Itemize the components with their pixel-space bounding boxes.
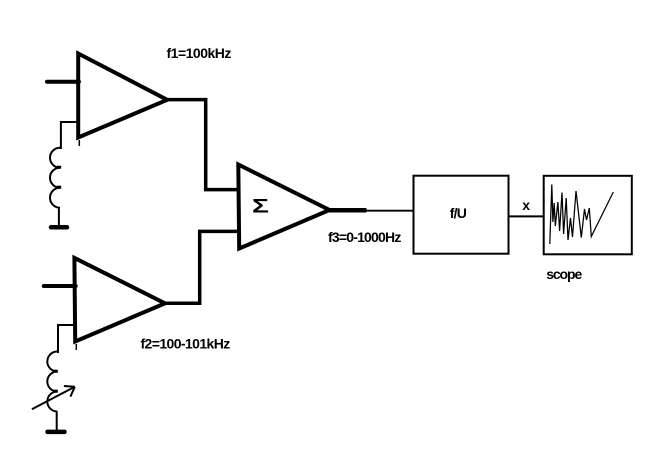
wire U2 input stub <box>44 284 76 288</box>
svg-text:x: x <box>522 197 530 213</box>
wire mixer output thick <box>328 208 367 213</box>
variable inductor L2 <box>47 352 57 412</box>
inductor L1 junction nub <box>57 186 61 189</box>
scope block <box>544 176 632 255</box>
svg-text:f1=100kHz: f1=100kHz <box>167 45 232 61</box>
scope waveform trace <box>550 185 614 245</box>
svg-text:scope: scope <box>546 266 582 282</box>
op-amp U2 oscillator triangle <box>74 258 165 342</box>
wire U1 feedback to L1 <box>61 122 78 149</box>
wire mixer output thin to f/U <box>365 210 413 212</box>
svg-text:f/U: f/U <box>450 205 467 221</box>
wire U1 output to mixer top input <box>166 100 238 190</box>
svg-text:f3=0-1000Hz: f3=0-1000Hz <box>328 229 401 245</box>
wire U1 input stub <box>47 80 79 84</box>
svg-text:f2=100-101kHz: f2=100-101kHz <box>141 335 231 351</box>
mixer U3 summing triangle <box>238 165 329 249</box>
L2 adjustment arrow <box>32 386 75 409</box>
U2 corner tick <box>75 344 77 350</box>
svg-text:Σ: Σ <box>252 196 269 218</box>
wire f/U to scope <box>510 215 545 217</box>
U1 corner tick <box>78 140 80 146</box>
ground 1 <box>51 225 67 230</box>
wire U2 feedback to L2 <box>58 325 76 353</box>
inductor L1 junction nub <box>57 166 61 169</box>
inductor L2 junction nub <box>53 370 58 373</box>
wire L2 to ground <box>56 412 58 431</box>
op-amp U1 oscillator triangle <box>78 54 167 138</box>
ground 2 <box>48 430 65 435</box>
converter block f/U <box>414 176 509 254</box>
inductor L1 <box>50 148 60 208</box>
wire L1 to ground <box>58 208 60 227</box>
wire U2 output to mixer bottom input <box>164 231 238 303</box>
inductor L2 junction nub <box>53 390 58 393</box>
